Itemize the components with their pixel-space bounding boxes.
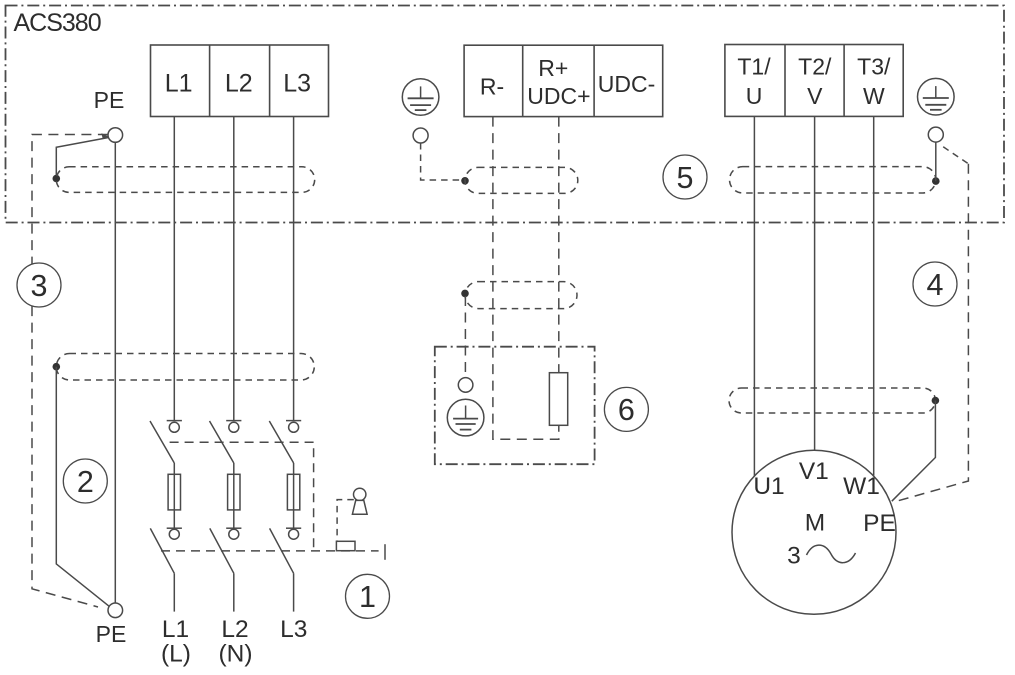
node shield junction dot (motor oval top): [932, 177, 940, 185]
ground terminal circle (brake side): [413, 128, 428, 143]
wire shield to motor PE: [892, 401, 936, 502]
callout 3: [17, 263, 61, 307]
enclosure ACS380 drive boundary (dash-dot frame): [6, 6, 1005, 223]
svg-text:T3/: T3/: [857, 54, 891, 80]
svg-text:V1: V1: [799, 458, 829, 485]
node shield junction dot (bottom left oval): [53, 363, 61, 371]
wire end terminator: [384, 544, 386, 560]
switch-fuse column L3: [269, 421, 301, 612]
svg-text:PE: PE: [96, 621, 127, 647]
cable shield oval (brake, upper): [465, 167, 578, 193]
wire dashed shield ground stub: [464, 296, 466, 378]
svg-text:L3: L3: [283, 70, 311, 98]
svg-text:L1: L1: [162, 616, 189, 643]
svg-text:(L): (L): [161, 641, 191, 668]
brake resistor box (dash-dot): [435, 347, 595, 465]
node shield junction dot (brake lower oval): [461, 290, 469, 298]
fuse F2: [228, 474, 240, 510]
callout 2: [63, 459, 107, 503]
wire shield bond diagonal (top): [56, 138, 108, 176]
switch-fuse column L2: [210, 421, 242, 612]
node shield junction dot (top left oval): [53, 175, 61, 183]
svg-text:UDC+: UDC+: [527, 83, 590, 109]
fuse F1: [168, 474, 180, 510]
arrowhead at PE circle: [101, 133, 109, 138]
ground terminal circle (resistor box): [458, 378, 473, 393]
svg-text:PE: PE: [863, 510, 896, 537]
svg-text:L2: L2: [225, 70, 253, 98]
svg-text:ACS380: ACS380: [14, 9, 101, 37]
protective earth symbol (resistor box): [447, 399, 484, 436]
protective earth symbol (drive, brake side): [402, 79, 439, 116]
operator actuator box: [336, 541, 355, 550]
wire dashed PE route left: [32, 135, 108, 608]
wire L3 phase: [293, 117, 295, 421]
svg-text:U1: U1: [753, 473, 784, 500]
switchgear dashed outline: [170, 442, 314, 551]
motor sine wave: [807, 545, 856, 563]
PE terminal circle (top): [108, 128, 123, 143]
wire dashed PE route right: [943, 147, 968, 164]
cable shield oval (input, upper): [56, 167, 314, 193]
svg-text:M: M: [805, 510, 825, 537]
wire R+ dashed: [558, 117, 560, 373]
svg-text:PE: PE: [94, 87, 125, 113]
svg-text:U: U: [746, 83, 763, 109]
svg-text:3: 3: [787, 543, 801, 570]
svg-text:V: V: [807, 83, 823, 109]
svg-text:6: 6: [618, 393, 635, 427]
callout 5: [663, 155, 707, 199]
svg-text:T1/: T1/: [737, 54, 771, 80]
svg-text:W1: W1: [843, 473, 880, 500]
operator linkage dashed: [337, 500, 354, 541]
ground terminal circle (motor side): [928, 127, 943, 142]
callout 6: [604, 387, 648, 431]
callout 1: [346, 574, 390, 618]
svg-text:(N): (N): [218, 641, 252, 668]
cable shield oval (motor cable): [729, 388, 935, 413]
svg-text:5: 5: [677, 161, 694, 195]
wire U phase: [753, 116, 755, 476]
svg-text:L1: L1: [165, 70, 193, 98]
svg-text:3: 3: [31, 269, 48, 303]
cable shield oval (input, lower): [56, 354, 314, 381]
wire L1 phase: [173, 117, 175, 421]
callout 4: [913, 262, 957, 306]
node shield junction dot (brake oval): [461, 177, 469, 185]
wire ground conductor to bottom PE: [56, 367, 108, 606]
svg-text:R+: R+: [538, 55, 568, 81]
terminal block T1/U T2/V T3/W: [725, 45, 903, 117]
svg-text:T2/: T2/: [798, 54, 832, 80]
motor M 3~: [732, 450, 896, 614]
wire W phase: [873, 116, 875, 475]
svg-text:L2: L2: [221, 616, 248, 643]
svg-text:1: 1: [359, 580, 376, 614]
protective earth symbol (motor side): [918, 78, 955, 115]
wire R- dashed: [493, 117, 559, 440]
terminal block L1 L2 L3: [151, 45, 329, 117]
wire ground stub solid (motor side): [935, 142, 937, 181]
wire V phase: [814, 116, 816, 450]
svg-text:2: 2: [77, 465, 94, 499]
brake resistor R: [549, 373, 567, 426]
terminal block R- / R+UDC+ / UDC-: [464, 45, 663, 116]
svg-text:W: W: [863, 83, 885, 109]
wire PE conductor vertical: [114, 142, 116, 603]
wire L2 phase: [233, 117, 235, 421]
cable shield oval (brake, lower): [465, 282, 577, 309]
fuse F3: [287, 474, 299, 510]
node shield junction dot (motor oval bottom): [932, 397, 940, 405]
wire dashed ground link (brake side): [421, 143, 462, 180]
svg-text:R-: R-: [480, 74, 504, 100]
manual operator icon (person): [354, 488, 366, 500]
switch-fuse column L1: [150, 421, 182, 612]
svg-text:L3: L3: [280, 616, 307, 643]
svg-text:UDC-: UDC-: [598, 71, 656, 97]
cable shield oval (output, upper): [730, 167, 936, 193]
svg-text:4: 4: [927, 268, 944, 302]
PE terminal circle (bottom): [108, 603, 123, 618]
